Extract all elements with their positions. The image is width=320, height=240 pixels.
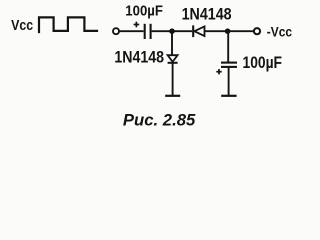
svg-text:1N4148: 1N4148 xyxy=(114,49,164,67)
svg-text:Рис. 2.85: Рис. 2.85 xyxy=(123,112,196,130)
svg-text:100µF: 100µF xyxy=(125,2,163,19)
svg-text:Vcc: Vcc xyxy=(11,18,33,34)
svg-text:1N4148: 1N4148 xyxy=(182,6,232,24)
svg-text:-Vcc: -Vcc xyxy=(267,25,292,41)
svg-text:100µF: 100µF xyxy=(243,54,283,72)
